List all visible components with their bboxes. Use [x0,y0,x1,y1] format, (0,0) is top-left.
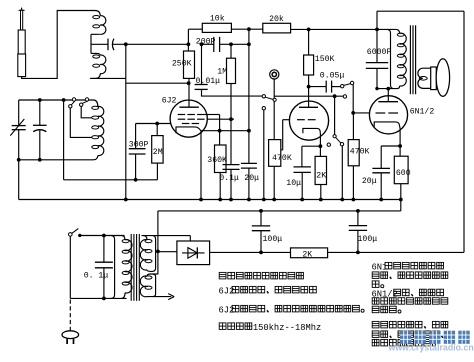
svg-text:0.05μ: 0.05μ [320,72,345,81]
svg-text:0.01μ: 0.01μ [196,77,221,86]
svg-text:2K: 2K [302,250,312,259]
svg-text:6N1/2: 6N1/2 [410,106,435,116]
svg-text:300P: 300P [129,141,149,150]
svg-text:0.1μ: 0.1μ [219,174,239,183]
svg-text:10k: 10k [210,13,225,23]
svg-text:0. 1μ: 0. 1μ [84,272,109,281]
svg-text:470K: 470K [350,147,370,156]
svg-text:10μ: 10μ [286,179,301,188]
svg-text:20μ: 20μ [244,174,259,183]
svg-text:150khz--18Mhz: 150khz--18Mhz [253,323,321,333]
svg-text:2K: 2K [316,172,326,181]
svg-text:470K: 470K [272,154,292,163]
svg-text:20k: 20k [269,14,284,24]
svg-text:100μ: 100μ [358,235,378,244]
svg-text:6J2: 6J2 [162,96,177,105]
svg-text:2M: 2M [153,148,163,157]
svg-text:www.crystalradio.cn: www.crystalradio.cn [388,343,474,353]
svg-text:1M: 1M [217,67,227,76]
svg-text:20μ: 20μ [362,177,377,186]
svg-text:6000P: 6000P [367,48,392,57]
svg-text:150K: 150K [315,55,335,64]
svg-text:600: 600 [396,169,411,178]
svg-text:360K: 360K [207,156,227,165]
svg-text:100μ: 100μ [263,235,283,244]
svg-text:250K: 250K [172,60,192,69]
svg-text:200P: 200P [196,38,216,47]
